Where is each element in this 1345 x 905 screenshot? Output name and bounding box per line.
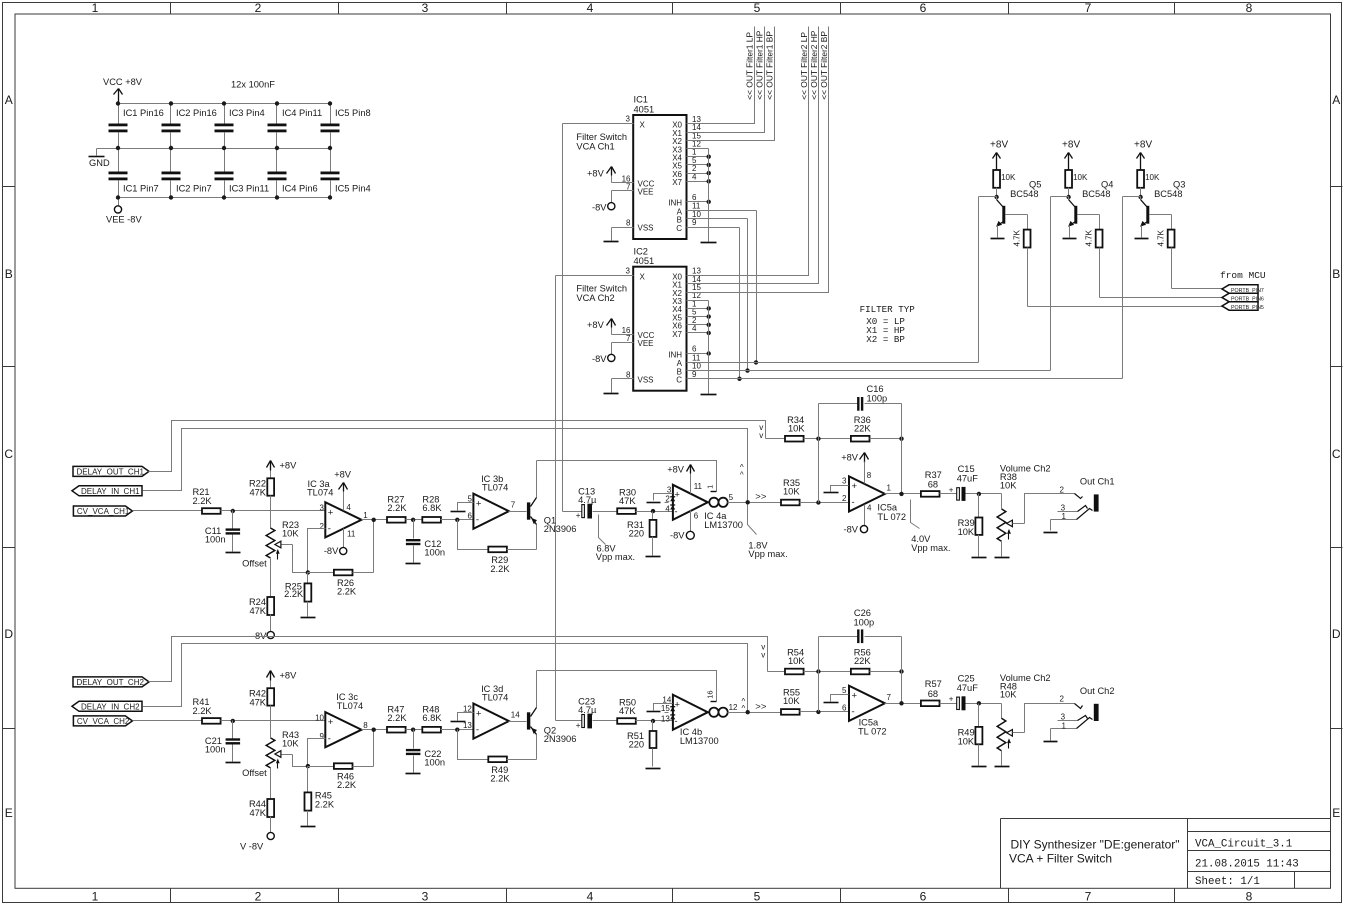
wire net OUT Filter1 HP xyxy=(687,27,765,133)
svg-text:15: 15 xyxy=(661,704,670,713)
svg-text:2.2K: 2.2K xyxy=(337,780,357,790)
label Filter Switch VCA Ch1 xyxy=(576,132,627,152)
svg-text:TL074: TL074 xyxy=(337,701,363,711)
svg-text:C15: C15 xyxy=(958,464,975,474)
IC 3d plus input ground xyxy=(451,713,474,722)
svg-text:2: 2 xyxy=(1060,485,1065,494)
power flag VEE -8V xyxy=(106,198,142,225)
svg-text:+8V: +8V xyxy=(841,452,859,462)
svg-text:E: E xyxy=(5,806,13,820)
svg-text:1: 1 xyxy=(1062,512,1067,521)
svg-text:4: 4 xyxy=(346,503,351,512)
resistor R48 6.8K xyxy=(422,705,442,733)
IC1 power -8V VEE xyxy=(592,183,653,213)
svg-text:INH: INH xyxy=(668,199,682,208)
IC2 pin 14 X1 label xyxy=(672,275,701,290)
svg-text:PORTB_PIN5: PORTB_PIN5 xyxy=(1231,305,1264,311)
svg-text:TL074: TL074 xyxy=(482,692,508,702)
svg-text:2: 2 xyxy=(842,494,847,503)
wire filter X to C13 xyxy=(563,511,582,513)
IC5a plus input ground xyxy=(824,695,849,703)
svg-text:Vpp max.: Vpp max. xyxy=(911,543,950,553)
IC2 VSS ground xyxy=(604,370,654,393)
capacitor C16 100p feedback xyxy=(819,384,902,503)
svg-text:<< OUT Filter2 LP: << OUT Filter2 LP xyxy=(799,32,809,100)
svg-text:+: + xyxy=(476,709,482,720)
wire R30 to OTA minus xyxy=(636,719,673,723)
svg-text:7: 7 xyxy=(1085,1,1092,15)
svg-text:A: A xyxy=(1332,93,1340,107)
svg-text:7: 7 xyxy=(1085,889,1092,903)
svg-text:LM13700: LM13700 xyxy=(704,520,743,530)
wire Q5 base to MCU flag xyxy=(1028,248,1223,307)
svg-text:v: v xyxy=(759,431,763,440)
svg-text:6: 6 xyxy=(920,1,927,15)
svg-text:8: 8 xyxy=(867,471,872,480)
resistor R34 10K from delay return xyxy=(766,415,806,442)
potentiometer R38 10K volume xyxy=(995,464,1051,558)
svg-text:IC1: IC1 xyxy=(634,95,648,105)
resistor R22 47K to +8V xyxy=(249,461,297,498)
capacitor C22 100n to ground xyxy=(406,730,446,774)
IC1 pin 1 X4 label xyxy=(672,148,697,163)
svg-text:100n: 100n xyxy=(205,535,226,545)
svg-text:10K: 10K xyxy=(1000,690,1017,700)
svg-text:2: 2 xyxy=(255,1,262,15)
svg-text:6: 6 xyxy=(920,889,927,903)
svg-text:TL 072: TL 072 xyxy=(877,512,906,522)
IC2 pin 6 INH label xyxy=(668,345,697,360)
svg-text:C: C xyxy=(4,447,13,461)
svg-text:47uF: 47uF xyxy=(957,683,979,693)
svg-text:10K: 10K xyxy=(282,529,299,539)
svg-text:12: 12 xyxy=(729,703,738,712)
svg-text:4.7K: 4.7K xyxy=(1085,229,1094,246)
resistor R56 22K feedback xyxy=(804,648,904,675)
svg-text:IC5 Pin4: IC5 Pin4 xyxy=(335,184,371,194)
svg-text:8: 8 xyxy=(626,370,631,379)
svg-text:BC548: BC548 xyxy=(1010,189,1038,199)
svg-text:13: 13 xyxy=(463,721,472,730)
IC2 pin 4 X7 label xyxy=(672,324,697,339)
svg-text:VCA Ch2: VCA Ch2 xyxy=(576,293,614,303)
svg-text:>>: >> xyxy=(755,492,767,503)
label Filter Switch VCA Ch2 xyxy=(576,284,627,304)
resistor 4.7K base Q5 xyxy=(1006,215,1031,248)
svg-text:68: 68 xyxy=(928,480,938,490)
svg-text:2.2K: 2.2K xyxy=(315,799,335,809)
svg-text:3: 3 xyxy=(320,503,325,512)
wire net IC2 X to VCA Ch2 input xyxy=(555,276,557,721)
flag DELAY_OUT_CH2 xyxy=(73,677,149,687)
svg-text:10K: 10K xyxy=(958,527,975,537)
svg-text:-8V: -8V xyxy=(844,524,859,534)
wire net OUT Filter2 HP xyxy=(687,27,820,284)
svg-text:5: 5 xyxy=(729,493,734,502)
svg-text:BC548: BC548 xyxy=(1154,189,1182,199)
annotation 4.0V Vpp max xyxy=(911,500,951,554)
resistor R29 2.2K feedback xyxy=(488,547,536,574)
flag PORTB_PIN5 xyxy=(1222,302,1258,310)
flag DELAY_IN_CH1 xyxy=(72,486,142,496)
wire IC 3a output xyxy=(362,518,387,522)
IC1 pin 15 X2 label xyxy=(672,131,701,146)
svg-text:IC4 Pin11: IC4 Pin11 xyxy=(282,108,322,118)
OTA IC 4b LM13700 xyxy=(661,695,738,747)
jack Out Ch2 xyxy=(1044,686,1115,742)
svg-text:IC4 Pin6: IC4 Pin6 xyxy=(282,184,318,194)
svg-text:6: 6 xyxy=(842,703,847,712)
flag DELAY_OUT_CH1 xyxy=(73,466,149,476)
wire net IC1 X to VCA Ch1 input xyxy=(562,124,564,512)
svg-text:1: 1 xyxy=(706,485,715,489)
IC 4a plus input ground xyxy=(647,494,673,503)
svg-text:<< OUT Filter1 HP: << OUT Filter1 HP xyxy=(755,30,765,100)
svg-text:X7: X7 xyxy=(672,178,682,187)
wire IC 3c minus input feedback xyxy=(308,739,326,767)
svg-text:-: - xyxy=(852,706,855,717)
IC2 X3-X7 INH bus to ground xyxy=(687,301,717,395)
svg-text:100n: 100n xyxy=(205,744,226,754)
svg-text:VEE -8V: VEE -8V xyxy=(106,215,142,225)
svg-text:TL074: TL074 xyxy=(482,483,508,493)
svg-text:CV_VCA_CH1: CV_VCA_CH1 xyxy=(77,507,130,516)
svg-text:X: X xyxy=(640,121,646,130)
svg-text:-8V: -8V xyxy=(592,354,607,364)
svg-text:+: + xyxy=(576,721,581,730)
svg-text:47K: 47K xyxy=(249,488,266,498)
resistor 10K collector Q5 xyxy=(993,170,1016,197)
svg-text:Out Ch1: Out Ch1 xyxy=(1080,477,1115,487)
svg-text:1: 1 xyxy=(92,889,99,903)
svg-text:LM13700: LM13700 xyxy=(680,736,719,746)
resistor 10K collector Q4 xyxy=(1065,170,1088,197)
svg-text:-: - xyxy=(674,716,677,727)
capacitor 100nF bottom row col4 xyxy=(268,149,318,198)
svg-text:+8V: +8V xyxy=(280,670,298,680)
svg-text:+: + xyxy=(852,481,858,492)
svg-text:100n: 100n xyxy=(424,548,445,558)
IC1 pin 5 X5 label xyxy=(672,156,697,171)
svg-text:7: 7 xyxy=(626,334,631,343)
svg-text:DELAY_OUT_CH1: DELAY_OUT_CH1 xyxy=(77,468,145,477)
wire CV node to opamp + xyxy=(221,509,326,513)
op-amp IC 3a TL074 xyxy=(307,470,368,557)
svg-text:IC3 Pin11: IC3 Pin11 xyxy=(229,184,269,194)
svg-text:+8V: +8V xyxy=(990,140,1008,151)
svg-text:X7: X7 xyxy=(672,330,682,339)
svg-text:INH: INH xyxy=(668,350,682,359)
IC5a plus input ground xyxy=(824,486,849,493)
svg-text:-: - xyxy=(852,497,855,508)
resistor R26 2.2K feedback xyxy=(308,520,374,597)
IC1 VSS ground xyxy=(604,219,654,242)
resistor R47 2.2K xyxy=(387,705,407,733)
svg-text:4: 4 xyxy=(587,889,594,903)
transistor Q2 2N3906 xyxy=(527,671,576,760)
resistor R49 2.2K feedback xyxy=(488,757,536,784)
svg-text:C: C xyxy=(676,376,682,385)
wire net mux select C xyxy=(687,197,1123,381)
svg-text:2.2K: 2.2K xyxy=(193,706,213,716)
capacitor C11 100n xyxy=(205,511,241,553)
IC2 pin 2 X6 label xyxy=(672,316,697,331)
svg-text:-8V: -8V xyxy=(670,530,685,540)
svg-text:8: 8 xyxy=(363,721,368,730)
svg-text:1: 1 xyxy=(92,1,99,15)
svg-text:7: 7 xyxy=(511,501,516,510)
svg-text:5: 5 xyxy=(842,686,847,695)
svg-text:IC2 Pin7: IC2 Pin7 xyxy=(176,184,212,194)
chevrons ^ ^ xyxy=(742,697,746,713)
svg-text:2.2K: 2.2K xyxy=(284,589,304,599)
resistor 10K collector Q3 xyxy=(1137,170,1160,197)
wire VEE rail xyxy=(119,197,331,199)
svg-text:<< OUT Filter1 LP: << OUT Filter1 LP xyxy=(744,32,754,100)
svg-text:+8V: +8V xyxy=(587,168,605,178)
svg-text:Filter Switch: Filter Switch xyxy=(576,284,627,294)
svg-text:from MCU: from MCU xyxy=(1220,270,1266,281)
svg-text:-: - xyxy=(328,734,331,745)
wire net OUT Filter2 LP xyxy=(687,27,809,276)
wire IC 4b output xyxy=(728,702,781,715)
wire net OUT Filter1 LP xyxy=(687,27,755,124)
svg-text:2N3906: 2N3906 xyxy=(544,524,577,534)
svg-text:5: 5 xyxy=(754,1,761,15)
svg-text:^: ^ xyxy=(742,704,746,713)
junction dots xyxy=(222,101,226,199)
svg-text:100p: 100p xyxy=(854,618,875,628)
IC1 pin 12 X3 label xyxy=(672,140,701,155)
multiplexer IC2 4051 box xyxy=(633,246,686,390)
svg-text:Vpp max.: Vpp max. xyxy=(748,549,787,559)
annotation 1.8V Vpp max xyxy=(748,505,788,560)
op-amp IC5a TL072 channel 2 xyxy=(842,686,891,737)
resistor R51 220 to ground xyxy=(627,721,660,769)
svg-text:10: 10 xyxy=(315,713,324,722)
junction dots xyxy=(275,101,279,199)
svg-text:>>: >> xyxy=(755,702,767,713)
svg-text:+: + xyxy=(476,499,482,510)
svg-text:13: 13 xyxy=(661,714,670,723)
svg-text:4.7µ: 4.7µ xyxy=(578,495,597,505)
resistor 4.7K base Q3 xyxy=(1150,215,1175,248)
svg-text:2.2K: 2.2K xyxy=(490,774,510,784)
svg-text:C: C xyxy=(676,224,682,233)
chevrons v v xyxy=(759,423,763,440)
svg-text:+: + xyxy=(328,717,334,728)
resistor R24 47K to -8V xyxy=(249,575,274,642)
svg-text:X2 = BP: X2 = BP xyxy=(866,334,905,345)
IC1 pin 10 B label xyxy=(677,210,702,225)
power flag VCC +8V xyxy=(103,77,143,104)
svg-text:4.7µ: 4.7µ xyxy=(578,705,597,715)
wire Q4 base to MCU flag xyxy=(1100,248,1223,298)
svg-text:10K: 10K xyxy=(282,738,299,748)
svg-text:10K: 10K xyxy=(783,696,800,706)
power +8V for Q4 xyxy=(1062,140,1080,171)
wire IC5a output xyxy=(885,701,921,705)
svg-text:2.2K: 2.2K xyxy=(193,496,213,506)
IC2 pin 10 B label xyxy=(677,362,702,377)
capacitor C25 47uF polarized xyxy=(940,673,1002,710)
svg-text:CV_VCA_CH2: CV_VCA_CH2 xyxy=(77,717,130,726)
svg-text:Out Ch2: Out Ch2 xyxy=(1080,686,1115,696)
resistor R57 68 xyxy=(921,679,942,706)
wire net OUT Filter2 BP xyxy=(687,27,830,293)
flag CV_VCA_CH2 xyxy=(73,716,132,726)
IC2 pin 9 C label xyxy=(676,370,697,385)
svg-text:Filter Switch: Filter Switch xyxy=(576,132,627,142)
transistor Q4 BC548 xyxy=(1051,180,1114,239)
svg-text:IC3 Pin4: IC3 Pin4 xyxy=(229,108,265,118)
svg-text:68: 68 xyxy=(928,689,938,699)
svg-text:4.7K: 4.7K xyxy=(1013,229,1022,246)
wire IC 3a minus input feedback xyxy=(308,529,326,573)
svg-text:7: 7 xyxy=(626,183,631,192)
transistor Q3 BC548 xyxy=(1123,180,1186,239)
wire CV input xyxy=(133,720,203,722)
svg-text:12x 100nF: 12x 100nF xyxy=(231,80,275,90)
potentiometer R48 10K volume xyxy=(995,673,1051,767)
wire IC 4a output xyxy=(728,492,781,505)
svg-text:10K: 10K xyxy=(1001,173,1016,182)
svg-text:47K: 47K xyxy=(619,496,636,506)
svg-text:2N3906: 2N3906 xyxy=(544,734,577,744)
transistor Q1 2N3906 xyxy=(527,461,576,550)
IC2 pin 13 X0 label xyxy=(672,267,701,282)
svg-text:6.8K: 6.8K xyxy=(422,713,442,723)
svg-text:47uF: 47uF xyxy=(957,474,979,484)
resistor R39 10K to ground xyxy=(958,494,987,558)
svg-text:TL074: TL074 xyxy=(307,488,333,498)
svg-text:8: 8 xyxy=(1246,889,1253,903)
chevrons ^ ^ xyxy=(740,463,744,479)
svg-text:A: A xyxy=(5,93,13,107)
svg-text:+8V: +8V xyxy=(587,320,605,330)
junction dots xyxy=(116,101,120,199)
svg-text:47K: 47K xyxy=(249,808,266,818)
resistor R45 2.2K to ground xyxy=(301,767,335,827)
svg-text:+: + xyxy=(949,485,954,494)
svg-text:+8V: +8V xyxy=(667,464,685,474)
svg-text:8: 8 xyxy=(626,219,631,228)
svg-text:TL 072: TL 072 xyxy=(858,726,887,736)
svg-text:-: - xyxy=(674,506,677,517)
wire net OUT Filter1 BP xyxy=(687,27,775,141)
resistor R49 10K to ground xyxy=(958,704,987,767)
jack Out Ch1 xyxy=(1044,477,1115,533)
resistor R50 47K xyxy=(617,697,636,724)
wire CV input xyxy=(133,510,203,512)
IC1 pin 6 INH label xyxy=(668,193,697,208)
IC1 power +8V xyxy=(587,167,655,189)
wire CV node to opamp + xyxy=(221,719,326,723)
wire R28 to IC3b minus xyxy=(441,728,474,732)
svg-text:FILTER TYP: FILTER TYP xyxy=(860,304,916,315)
capacitor C12 100n to ground xyxy=(406,520,446,564)
resistor R42 47K to +8V xyxy=(249,670,297,707)
svg-text:GND: GND xyxy=(89,158,110,168)
title text DIY Synthesizer xyxy=(1009,838,1180,866)
svg-text:10K: 10K xyxy=(1000,480,1017,490)
svg-text:4: 4 xyxy=(587,1,594,15)
svg-text:-: - xyxy=(476,514,479,525)
svg-text:3: 3 xyxy=(422,889,429,903)
annotation 6.8V Vpp max xyxy=(596,515,635,562)
svg-text:2: 2 xyxy=(255,889,262,903)
svg-text:47K: 47K xyxy=(249,606,266,616)
svg-text:3: 3 xyxy=(626,266,631,275)
svg-text:16: 16 xyxy=(706,690,715,698)
svg-text:DELAY_IN_CH1: DELAY_IN_CH1 xyxy=(81,487,140,496)
title block xyxy=(1001,819,1331,889)
svg-text:3: 3 xyxy=(422,1,429,15)
svg-text:7: 7 xyxy=(887,693,892,702)
wire wiper to feedback node xyxy=(293,755,308,767)
capacitor 100nF top row col2 xyxy=(162,104,217,149)
svg-text:11: 11 xyxy=(694,482,703,491)
capacitor C26 100p feedback xyxy=(819,608,902,711)
IC1 pin 14 X1 label xyxy=(672,123,701,138)
svg-text:6: 6 xyxy=(692,345,697,354)
capacitor 100nF top row col5 xyxy=(321,104,371,149)
svg-text:<< OUT Filter1 BP: << OUT Filter1 BP xyxy=(765,31,775,100)
svg-text:+8V: +8V xyxy=(1062,140,1080,151)
resistor R25 2.2K to ground xyxy=(284,573,315,618)
resistor R35 10K xyxy=(781,478,800,505)
svg-text:Offset: Offset xyxy=(242,559,267,569)
wire IC 3c output xyxy=(362,728,387,732)
IC 4b plus input ground xyxy=(647,704,673,712)
wire DELAY_IN_CH2 from VCA out xyxy=(143,644,748,713)
svg-text:IC1 Pin7: IC1 Pin7 xyxy=(123,184,159,194)
capacitor 100nF top row col4 xyxy=(268,104,323,149)
svg-text:VCA Ch1: VCA Ch1 xyxy=(576,142,614,152)
capacitor C13 4.7u polarized xyxy=(576,486,618,520)
svg-text:IC2 Pin16: IC2 Pin16 xyxy=(176,108,217,118)
svg-text:E: E xyxy=(1332,806,1340,820)
svg-text:10K: 10K xyxy=(788,656,805,666)
wire volume wiper to jack pin 2 xyxy=(1025,494,1075,524)
svg-text:2: 2 xyxy=(320,522,325,531)
svg-text:B: B xyxy=(5,267,13,281)
svg-text:9: 9 xyxy=(320,732,325,741)
svg-text:9: 9 xyxy=(692,370,697,379)
wire IC 3b output to Q base xyxy=(509,511,527,513)
svg-text:V -8V: V -8V xyxy=(240,842,264,852)
svg-text:+: + xyxy=(328,507,334,518)
svg-text:<< OUT Filter2 BP: << OUT Filter2 BP xyxy=(819,31,829,100)
svg-text:R37: R37 xyxy=(925,470,942,480)
svg-text:100p: 100p xyxy=(867,394,888,404)
flag CV_VCA_CH1 xyxy=(73,506,132,516)
svg-text:1: 1 xyxy=(363,511,368,520)
capacitor C21 100n xyxy=(205,721,241,763)
capacitor 100nF top row col3 xyxy=(215,104,265,149)
svg-text:Vpp max.: Vpp max. xyxy=(596,552,635,562)
wire VCC rail xyxy=(119,103,331,105)
wire R35 to IC5a minus xyxy=(800,710,849,714)
resistor 4.7K base Q4 xyxy=(1078,215,1103,248)
wire net mux select B xyxy=(687,197,1051,373)
op-amp IC5a TL072 channel 1 xyxy=(841,452,906,534)
svg-text:C25: C25 xyxy=(958,673,975,683)
svg-text:8: 8 xyxy=(1246,1,1253,15)
flag DELAY_IN_CH2 xyxy=(72,701,142,711)
wire DELAY_OUT_CH1 to mixer xyxy=(149,421,766,472)
svg-text:2.2K: 2.2K xyxy=(337,586,357,596)
